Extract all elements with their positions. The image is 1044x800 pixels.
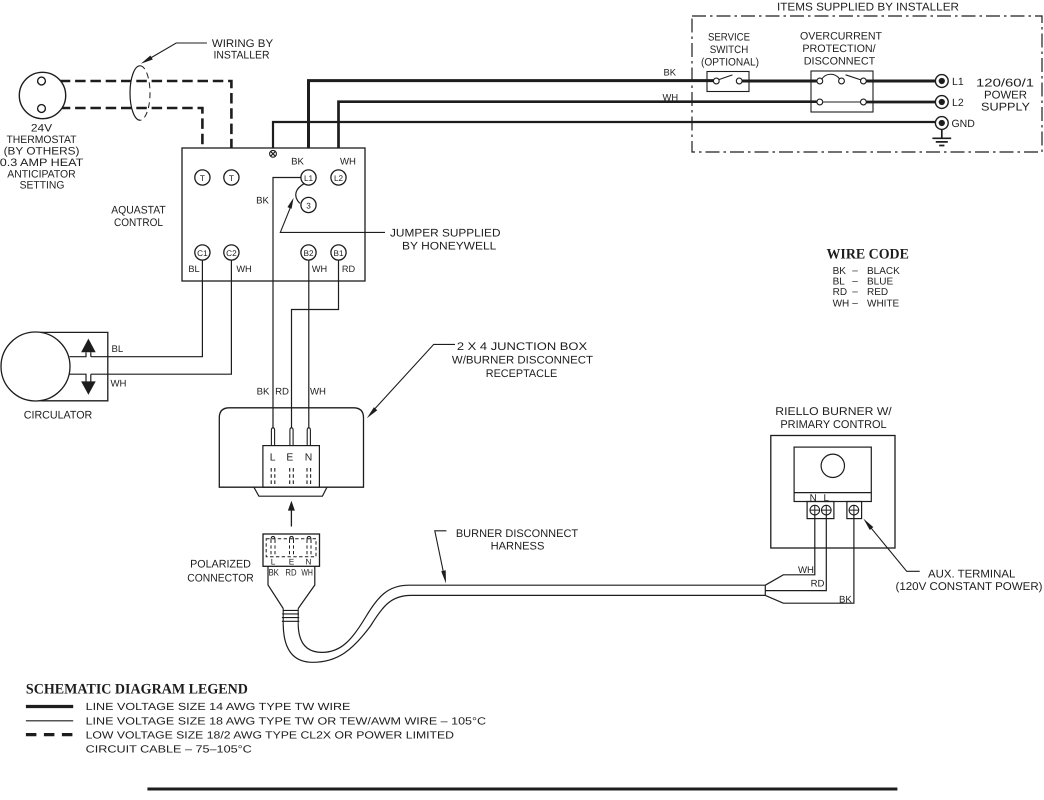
terminal B2 — [301, 245, 316, 260]
wire bundle ellipse right arc (dashed) — [140, 66, 150, 120]
breaker arc blade (pole 1) — [822, 74, 840, 79]
circulator WH wire stub with flow arrow down — [70, 374, 91, 381]
screw terminal N — [810, 505, 820, 515]
terminal L1 — [301, 170, 316, 185]
svg-text:BK: BK — [257, 387, 270, 398]
svg-text:HARNESS: HARNESS — [491, 541, 545, 553]
legend sample: line voltage 18 AWG (thin line) — [26, 720, 73, 722]
svg-text:24V: 24V — [31, 123, 53, 135]
primary control divider (flange strip) — [794, 492, 871, 494]
terminal labels L1 L2 GND — [952, 76, 976, 130]
svg-text:L2: L2 — [334, 174, 344, 183]
thermostat TSTAT body (24V, by others) — [19, 72, 65, 118]
svg-text:N: N — [306, 557, 312, 566]
svg-text:WH: WH — [310, 387, 326, 398]
wire BK from overcurrent protection to terminal L1 — [866, 80, 935, 83]
svg-text:WH: WH — [312, 264, 327, 274]
aquastat control box — [182, 148, 365, 281]
svg-text:B2: B2 — [303, 249, 313, 258]
overcurrent protection / disconnect box — [811, 71, 873, 112]
ground symbol below GND terminal — [932, 130, 951, 146]
receptacle face plate inside junction box — [263, 446, 320, 488]
terminal T (1) — [195, 170, 210, 185]
svg-text:WIRE CODE: WIRE CODE — [827, 247, 909, 263]
svg-text:RD: RD — [811, 579, 825, 590]
screw terminal L — [822, 505, 832, 515]
connector slot L — [271, 536, 275, 539]
jumper wire from L1 to 3 — [296, 184, 304, 204]
svg-text:BK: BK — [291, 157, 304, 168]
leader line: AUX. TERMINAL — [871, 527, 920, 571]
wire RD from B1 down to junction box E pin — [292, 260, 339, 428]
terminal C2 — [224, 245, 239, 260]
svg-text:JUMPER SUPPLIED: JUMPER SUPPLIED — [390, 228, 501, 240]
label: POLARIZED CONNECTOR — [187, 558, 253, 584]
svg-text:BURNER DISCONNECT: BURNER DISCONNECT — [456, 528, 579, 540]
label: BURNER DISCONNECT HARNESS — [456, 528, 579, 553]
terminal L2 (power supply) — [935, 96, 948, 109]
breaker pole circles bottom row — [817, 99, 823, 105]
wire WH from N terminal to harness — [765, 515, 815, 585]
wire BK between service switch and overcurrent protection — [742, 80, 817, 83]
svg-text:WH: WH — [663, 91, 679, 102]
label: WIRING BY INSTALLER — [212, 38, 274, 61]
svg-text:L: L — [823, 493, 829, 504]
svg-text:BK: BK — [839, 594, 852, 605]
connector slot N — [307, 536, 311, 539]
label: 2 X 4 JUNCTION BOX W/BURNER DISCONNECT RECEPTACLE — [452, 341, 593, 380]
wire BK from L1 down left side to junction box L pin — [273, 178, 301, 428]
wire: thermostat R lead (dashed, low voltage) to T2 — [45, 81, 232, 170]
svg-text:E: E — [289, 557, 295, 566]
svg-text:WH: WH — [340, 157, 356, 168]
svg-text:–: – — [852, 265, 858, 276]
svg-text:DISCONNECT: DISCONNECT — [804, 56, 876, 68]
svg-text:RD: RD — [833, 287, 847, 298]
label: 24V THERMOSTAT (BY OTHERS) 0.3 AMP HEAT ANTICIPATOR SETTING — [0, 123, 84, 192]
svg-text:BL: BL — [833, 276, 846, 287]
arrowhead to jumper — [287, 198, 293, 209]
svg-text:BY HONEYWELL: BY HONEYWELL — [402, 240, 496, 252]
svg-text:RIELLO BURNER W/: RIELLO BURNER W/ — [775, 406, 892, 418]
receptacle slot N (dashed) — [307, 468, 311, 484]
svg-text:C2: C2 — [226, 249, 237, 258]
thermostat terminal 1 — [38, 77, 46, 85]
svg-text:CONTROL: CONTROL — [114, 217, 163, 229]
AUX terminal block — [847, 502, 862, 519]
arrowhead to harness — [441, 570, 446, 583]
up arrow (filled) — [81, 339, 96, 353]
service switch contact circles — [713, 78, 719, 84]
leader line: WIRING BY INSTALLER — [150, 43, 207, 59]
harness end cap — [764, 585, 766, 595]
svg-text:(OPTIONAL): (OPTIONAL) — [701, 57, 759, 69]
svg-text:CONNECTOR: CONNECTOR — [187, 572, 253, 584]
legend sample: line voltage 14 AWG (thick line) — [26, 705, 73, 708]
arrow from polarized connector to receptacle — [290, 510, 292, 527]
harness cable S-curve (bottom line) — [283, 595, 765, 662]
labels N L — [810, 493, 830, 504]
label: AQUASTAT CONTROL — [111, 205, 166, 229]
primary control circle — [821, 454, 844, 477]
svg-text:2 X 4 JUNCTION BOX: 2 X 4 JUNCTION BOX — [457, 341, 588, 353]
svg-text:N: N — [810, 493, 817, 504]
leader line: 2 X 4 JUNCTION BOX label — [374, 344, 456, 410]
arrowhead to junction box corner — [367, 407, 378, 418]
receptacle pin E — [290, 428, 293, 446]
arrowhead to AUX terminal — [863, 519, 873, 531]
svg-text:C1: C1 — [197, 249, 208, 258]
circulator junction box outline — [41, 332, 108, 400]
junction box lower flange (trapezoid) — [254, 487, 327, 496]
wire GND from aquastat grounding terminal to GND terminal — [273, 122, 935, 151]
svg-text:WH: WH — [301, 567, 313, 577]
svg-text:RD: RD — [285, 567, 296, 577]
N L terminal block — [807, 502, 834, 519]
terminal L2 — [331, 170, 346, 185]
riello burner outer housing — [771, 436, 895, 549]
screw terminal AUX — [849, 505, 859, 515]
svg-text:OVERCURRENT: OVERCURRENT — [800, 31, 882, 43]
svg-text:E: E — [286, 453, 293, 464]
wire RD from L terminal to harness — [765, 515, 826, 591]
svg-text:BL: BL — [112, 344, 124, 355]
connector inner cavity (dashed) — [266, 539, 316, 557]
svg-text:BK: BK — [256, 196, 269, 207]
receptacle pin N — [307, 428, 310, 446]
svg-text:PROTECTION/: PROTECTION/ — [802, 43, 875, 55]
svg-text:POLARIZED: POLARIZED — [190, 558, 251, 570]
svg-text:LOW VOLTAGE SIZE 18/2 AWG TYPE: LOW VOLTAGE SIZE 18/2 AWG TYPE CL2X OR P… — [86, 730, 454, 741]
svg-text:BLUE: BLUE — [867, 276, 893, 287]
svg-text:L: L — [270, 453, 276, 464]
2x4 junction box body — [219, 408, 363, 487]
receptacle slot E (dashed) — [290, 468, 294, 484]
terminal L1 (power supply) — [935, 75, 948, 88]
svg-text:PRIMARY CONTROL: PRIMARY CONTROL — [780, 419, 886, 431]
down arrow (filled) — [81, 381, 96, 394]
svg-text:L1: L1 — [952, 76, 964, 88]
receptacle pin L — [271, 428, 274, 446]
strain relief ridges — [282, 609, 299, 625]
svg-text:T: T — [229, 174, 234, 183]
label: 120/60/1 POWER SUPPLY — [976, 78, 1034, 114]
svg-text:120/60/1: 120/60/1 — [976, 78, 1034, 90]
svg-text:WIRING BY: WIRING BY — [212, 38, 274, 50]
svg-text:LINE VOLTAGE SIZE 14 AWG TYPE: LINE VOLTAGE SIZE 14 AWG TYPE TW WIRE — [86, 702, 351, 713]
connector taper to strain relief — [268, 566, 315, 608]
svg-text:L: L — [271, 557, 276, 566]
svg-text:SWITCH: SWITCH — [710, 44, 749, 56]
wire code table — [833, 265, 901, 309]
leader line: JUMPER SUPPLIED BY HONEYWELL — [280, 208, 385, 233]
arrowhead to wire bundle — [141, 56, 153, 64]
service switch box — [707, 72, 749, 92]
svg-text:–: – — [852, 276, 858, 287]
service switch blade — [719, 75, 733, 80]
terminal C1 — [195, 245, 210, 260]
svg-text:SETTING: SETTING — [20, 179, 65, 191]
wire: thermostat W lead (dashed, low voltage) to T1 — [45, 108, 203, 170]
footer rule — [147, 788, 897, 791]
svg-text:BK: BK — [268, 567, 279, 577]
labels BK RD WH above junction box — [257, 387, 326, 398]
grounding terminal X on aquastat — [270, 150, 277, 157]
labels BK RD WH under connector — [268, 567, 312, 577]
svg-text:GND: GND — [952, 118, 976, 130]
svg-text:WH: WH — [236, 264, 251, 274]
svg-text:–: – — [852, 298, 858, 309]
svg-text:BK: BK — [833, 266, 847, 277]
harness cable S-curve (top line) — [298, 585, 765, 652]
svg-text:CIRCULATOR: CIRCULATOR — [24, 410, 93, 422]
svg-text:RECEPTACLE: RECEPTACLE — [486, 368, 558, 380]
terminal GND (power supply) — [935, 117, 948, 130]
wire WH from B2 down to junction box N pin — [308, 260, 310, 428]
labels BL WH WH RD under bottom terminals — [188, 264, 355, 274]
terminal 3 — [301, 197, 316, 212]
labels L E N on connector — [271, 557, 312, 566]
svg-text:AUX. TERMINAL: AUX. TERMINAL — [928, 569, 1015, 581]
labels L E N on receptacle — [270, 453, 312, 464]
label: SERVICE SWITCH (OPTIONAL) — [701, 32, 759, 69]
svg-text:B1: B1 — [333, 249, 343, 258]
terminal T (2) — [224, 170, 239, 185]
svg-text:L1: L1 — [304, 174, 314, 183]
label: JUMPER SUPPLIED BY HONEYWELL — [390, 228, 501, 253]
svg-text:LINE VOLTAGE SIZE 18 AWG TYPE: LINE VOLTAGE SIZE 18 AWG TYPE TW OR TEW/… — [86, 716, 487, 727]
svg-text:WH: WH — [111, 379, 127, 390]
circulator pump body — [1, 332, 70, 401]
connector slot E — [290, 536, 294, 539]
svg-text:BK: BK — [664, 66, 677, 77]
svg-text:RD: RD — [275, 387, 289, 398]
wire WH from overcurrent protection to terminal L2 — [866, 101, 935, 104]
wire WH from C2 down to circulator — [91, 260, 232, 374]
breaker straight blade (pole 2) — [846, 75, 862, 80]
circulator BL wire stub with flow arrow up — [70, 352, 91, 356]
breaker bottom tie link — [823, 101, 861, 103]
thermostat terminal 2 — [38, 105, 46, 113]
svg-text:INSTALLER: INSTALLER — [213, 49, 269, 61]
svg-text:N: N — [305, 453, 313, 464]
svg-text:ITEMS SUPPLIED BY INSTALLER: ITEMS SUPPLIED BY INSTALLER — [777, 2, 959, 14]
svg-text:WH: WH — [833, 298, 850, 309]
leader line: BURNER DISCONNECT HARNESS — [435, 531, 447, 573]
wire WH (thick) from aquastat L2 up and right to overcurrent box — [339, 102, 817, 170]
svg-text:T: T — [200, 174, 205, 183]
wire BK from AUX terminal to harness — [765, 515, 854, 603]
svg-text:AQUASTAT: AQUASTAT — [111, 205, 166, 217]
label: RIELLO BURNER W/ PRIMARY CONTROL — [775, 406, 892, 431]
receptacle slot L (dashed) — [271, 468, 275, 484]
wire BK (thick) from aquastat L1 up and right to service switch — [309, 81, 714, 170]
wire bundle ellipse (cable loop symbol), left arc solid — [130, 66, 140, 120]
legend sample: low voltage (dashed line) — [26, 733, 73, 736]
svg-text:POWER: POWER — [984, 90, 1027, 102]
svg-text:L2: L2 — [952, 97, 964, 109]
svg-text:WHITE: WHITE — [867, 298, 900, 309]
svg-text:SUPPLY: SUPPLY — [981, 102, 1031, 114]
svg-text:WH: WH — [798, 565, 814, 576]
label: AUX. TERMINAL (120V CONSTANT POWER) — [896, 569, 1043, 593]
svg-text:3: 3 — [306, 202, 311, 211]
svg-text:BLACK: BLACK — [867, 266, 900, 277]
breaker pole circles top row — [817, 78, 823, 84]
terminal B1 — [331, 245, 346, 260]
polarized connector body — [263, 534, 320, 566]
wire BL from C1 down to circulator — [91, 260, 203, 357]
svg-text:CIRCUIT CABLE – 75–105°C: CIRCUIT CABLE – 75–105°C — [86, 744, 253, 755]
svg-text:–: – — [852, 287, 858, 298]
svg-text:SERVICE: SERVICE — [708, 32, 750, 44]
svg-text:W/BURNER DISCONNECT: W/BURNER DISCONNECT — [452, 355, 593, 367]
svg-text:(120V CONSTANT POWER): (120V CONSTANT POWER) — [896, 581, 1043, 593]
items supplied by installer boundary (dash-dot box) — [692, 16, 1042, 152]
svg-text:RD: RD — [342, 264, 356, 274]
svg-text:BL: BL — [188, 264, 199, 274]
svg-text:SCHEMATIC DIAGRAM LEGEND: SCHEMATIC DIAGRAM LEGEND — [26, 682, 248, 698]
primary control box — [794, 447, 871, 501]
svg-text:THERMOSTAT: THERMOSTAT — [6, 134, 76, 146]
svg-text:RED: RED — [867, 287, 888, 298]
label: OVERCURRENT PROTECTION/ DISCONNECT — [800, 31, 882, 68]
svg-text:(BY OTHERS): (BY OTHERS) — [4, 146, 80, 158]
